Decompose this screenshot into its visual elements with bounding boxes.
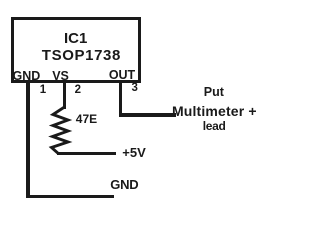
note text: Multimeter + bbox=[172, 104, 257, 118]
pin number 2 bbox=[75, 85, 81, 97]
pin number 1 bbox=[40, 85, 46, 97]
IC value label TSOP1738 bbox=[42, 48, 121, 63]
note text: lead bbox=[203, 120, 226, 132]
wire: pin3 OUT vertical wire bbox=[119, 81, 123, 117]
resistor value label 47E bbox=[76, 113, 97, 125]
+5V net label bbox=[122, 146, 146, 159]
wire: bottom GND horizontal wire bbox=[26, 195, 114, 198]
IC IC1 TSOP1738 body bbox=[11, 17, 141, 84]
wire: pin1 GND vertical wire bbox=[26, 83, 29, 198]
pin label GND (pin 1) bbox=[13, 70, 41, 83]
pin label OUT (pin 3) bbox=[109, 69, 135, 82]
pin label VS (pin 2) bbox=[52, 70, 69, 83]
wire: OUT horizontal wire to multimeter bbox=[119, 113, 176, 117]
resistor R1 47E zigzag bbox=[44, 100, 84, 160]
IC reference label IC1 bbox=[64, 31, 87, 46]
wire: pin2 VS vertical wire into resistor bbox=[63, 83, 66, 109]
pin number 3 bbox=[132, 83, 138, 95]
note text: Put bbox=[204, 86, 224, 99]
GND net label (bottom) bbox=[110, 178, 138, 191]
wire: +5V horizontal wire bbox=[57, 152, 116, 155]
